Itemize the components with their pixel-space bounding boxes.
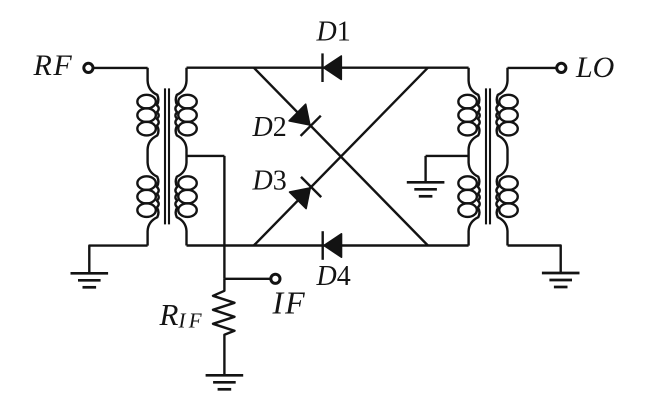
svg-text:R: R bbox=[159, 297, 179, 332]
svg-text:D1: D1 bbox=[316, 16, 351, 47]
svg-text:IF: IF bbox=[272, 284, 307, 320]
svg-text:D3: D3 bbox=[252, 166, 287, 197]
svg-text:IF: IF bbox=[178, 309, 205, 333]
svg-text:RF: RF bbox=[33, 49, 74, 82]
svg-text:LO: LO bbox=[575, 51, 614, 84]
svg-text:D4: D4 bbox=[316, 261, 351, 292]
svg-text:D2: D2 bbox=[252, 112, 287, 143]
